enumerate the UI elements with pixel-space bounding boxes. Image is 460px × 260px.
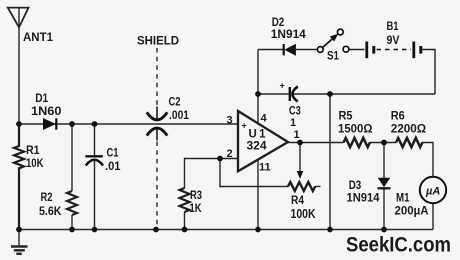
node C3 right junction	[327, 91, 333, 97]
svg-text:100K: 100K	[291, 207, 316, 221]
svg-text:+: +	[280, 81, 285, 91]
node ground row C1	[92, 227, 98, 233]
node ground row R2	[69, 227, 75, 233]
wire C3 ground drop	[329, 94, 331, 230]
wire pin 11 down	[257, 159, 259, 229]
wire R4 right stub	[315, 186, 321, 188]
svg-text:.01: .01	[105, 159, 121, 173]
svg-text:µA: µA	[425, 186, 440, 198]
switch S1	[317, 29, 349, 52]
svg-text:1: 1	[294, 129, 300, 141]
svg-text:R2: R2	[41, 190, 53, 204]
diode D2	[284, 44, 296, 55]
wire C1 branch vertical	[94, 124, 96, 230]
diode D3	[378, 178, 391, 188]
node ground row D3	[381, 227, 387, 233]
svg-text:1N914: 1N914	[347, 191, 380, 205]
node ground row R3	[182, 227, 188, 233]
node pin4 C3 junction	[255, 91, 261, 97]
svg-text:2: 2	[227, 148, 233, 160]
svg-text:.001: .001	[169, 108, 189, 122]
wire D3 branch vertical	[383, 143, 385, 230]
battery B1	[367, 42, 421, 59]
svg-text:R1: R1	[26, 143, 40, 157]
wire meter bottom	[432, 203, 434, 229]
svg-text:9V: 9V	[387, 33, 400, 47]
diode D1	[43, 118, 56, 129]
svg-text:+: +	[242, 121, 247, 131]
svg-text:1K: 1K	[190, 201, 202, 215]
wire bottom ground row	[19, 229, 433, 231]
svg-text:10K: 10K	[26, 156, 44, 170]
capacitor C1	[85, 156, 103, 165]
node R5 R6 D3 junction	[381, 140, 387, 146]
meter M1	[420, 177, 446, 203]
capacitor C3	[290, 87, 298, 102]
ground	[11, 230, 28, 254]
wire C3 row	[258, 93, 435, 95]
node top row C1 junction	[92, 121, 98, 127]
svg-text:C3: C3	[289, 104, 301, 118]
svg-text:11: 11	[259, 162, 271, 174]
antenna ANT1	[8, 8, 29, 124]
wire battery right corner down	[423, 50, 436, 95]
resistor R5	[344, 138, 370, 147]
svg-text:5.6K: 5.6K	[39, 204, 62, 218]
resistor R2	[67, 191, 77, 215]
svg-text:D1: D1	[35, 91, 48, 105]
shield dashed line lower	[156, 142, 158, 230]
op-amp U1	[238, 111, 288, 171]
shield dashed line upper	[156, 48, 158, 108]
svg-text:200µA: 200µA	[395, 204, 429, 218]
svg-text:R3: R3	[190, 188, 202, 202]
svg-text:S1: S1	[327, 49, 339, 63]
svg-text:C2: C2	[169, 95, 181, 109]
node ground row C3 drop	[327, 227, 333, 233]
wire top signal row	[19, 123, 238, 125]
svg-text:4: 4	[261, 113, 268, 125]
wire D2 left vertical and pin 4 feed	[257, 50, 259, 124]
svg-text:M1: M1	[396, 191, 410, 205]
svg-text:C1: C1	[107, 146, 119, 160]
node top row R2 junction	[69, 121, 75, 127]
wire feedback from pin 2 to R4	[220, 159, 288, 187]
node ground row pin11	[255, 227, 261, 233]
node pin2 feedback junction	[217, 156, 223, 162]
wire op-amp output row	[288, 143, 433, 177]
svg-text:3: 3	[227, 115, 233, 127]
node output junction	[297, 140, 303, 146]
node top row antenna junction	[16, 121, 22, 127]
svg-text:2200Ω: 2200Ω	[391, 122, 427, 136]
svg-text:SHIELD: SHIELD	[137, 36, 179, 48]
resistor R6	[396, 138, 422, 147]
node ground row R1	[16, 227, 22, 233]
node ground row shield	[153, 227, 159, 233]
resistor R1	[14, 124, 24, 230]
svg-text:1: 1	[290, 117, 296, 129]
svg-text:1500Ω: 1500Ω	[338, 122, 373, 136]
svg-text:1N60: 1N60	[31, 104, 62, 118]
resistor R4	[288, 182, 315, 191]
wire R3 branch	[185, 159, 239, 230]
resistor R3	[180, 188, 190, 212]
svg-text:R5: R5	[339, 109, 353, 123]
svg-text:B1: B1	[387, 19, 399, 33]
svg-text:ANT1: ANT1	[23, 30, 53, 44]
svg-text:R6: R6	[391, 109, 405, 123]
svg-text:SeekIC.com: SeekIC.com	[346, 233, 451, 257]
svg-text:R4: R4	[291, 193, 304, 207]
wire battery row	[258, 49, 365, 51]
capacitor C2	[147, 107, 167, 141]
wire R2 branch vertical	[71, 124, 73, 230]
svg-text:324: 324	[247, 139, 267, 153]
R4 wiper arrow	[297, 145, 304, 179]
svg-text:1N914: 1N914	[271, 27, 306, 41]
